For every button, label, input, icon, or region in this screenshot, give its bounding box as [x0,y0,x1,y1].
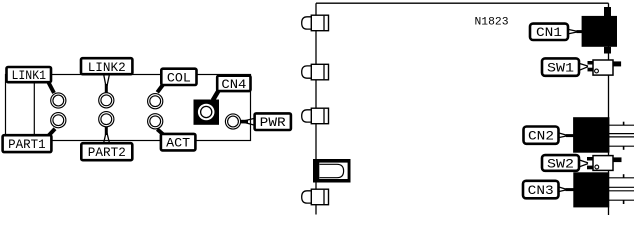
svg-text:ACT: ACT [166,136,190,151]
svg-text:LINK1: LINK1 [12,68,47,83]
LED PART2 [99,112,114,127]
label PWR [255,113,291,130]
leader LINK1 [48,81,55,94]
label LINK2 [81,58,132,75]
svg-text:SW2: SW2 [547,156,574,171]
svg-text:SW1: SW1 [547,61,574,76]
connector CN1 [582,7,617,54]
connector CN4 (power jack) [194,100,220,125]
label PART1 [3,135,52,152]
svg-text:PART2: PART2 [88,145,126,160]
board top edge [316,2,609,4]
label CN4 [217,76,250,92]
label CN1 [530,24,568,40]
LED PART1 [51,113,66,128]
lamp 2 [302,64,329,80]
leader SW1 [578,63,588,71]
leader CN3 [558,187,574,192]
label LINK1 [7,67,52,83]
svg-text:COL: COL [167,70,191,85]
lamp 3 [302,108,329,124]
label CN2 [524,127,559,144]
lamp 1 (side view LED) [302,15,329,31]
label SW2 [542,155,579,171]
LED COL [148,94,163,109]
svg-text:CN2: CN2 [528,129,554,144]
switch SW2 [587,156,622,171]
LED ACT [148,114,163,129]
svg-text:N1823: N1823 [475,17,509,29]
label ACT [161,134,196,151]
svg-text:CN3: CN3 [528,183,554,198]
board left edge [315,3,317,214]
leader PWR [241,118,255,125]
LED LINK1 [51,93,66,108]
svg-text:CN1: CN1 [536,25,562,40]
svg-text:LINK2: LINK2 [88,60,126,75]
lamp 4 [302,189,329,205]
leader LINK2 [104,75,110,93]
leader CN4 [213,90,219,101]
leader PART1 [48,129,56,137]
connector CN2 [573,117,634,153]
label PART2 [81,143,132,160]
svg-text:CN4: CN4 [221,77,246,92]
board right edge [608,3,610,215]
label SW1 [542,58,579,75]
leader COL [157,84,163,92]
switch SW1 [588,60,622,75]
leader PART2 [104,127,110,143]
wire vertical between LINK1 and PART1 [33,81,35,136]
leader ACT [157,129,164,135]
label CN3 [523,181,559,199]
leader CN1 [568,29,583,34]
svg-text:PWR: PWR [260,115,286,130]
board outline (left LED panel rectangle) [6,75,251,141]
connector CN3 [573,172,634,207]
leader SW2 [578,160,588,168]
svg-text:PART1: PART1 [8,137,46,152]
leader CN2 [558,133,574,138]
label COL [161,69,196,86]
LED PWR [225,114,240,129]
connector (D-opening) on left edge [313,159,351,183]
LED LINK2 [99,93,114,108]
